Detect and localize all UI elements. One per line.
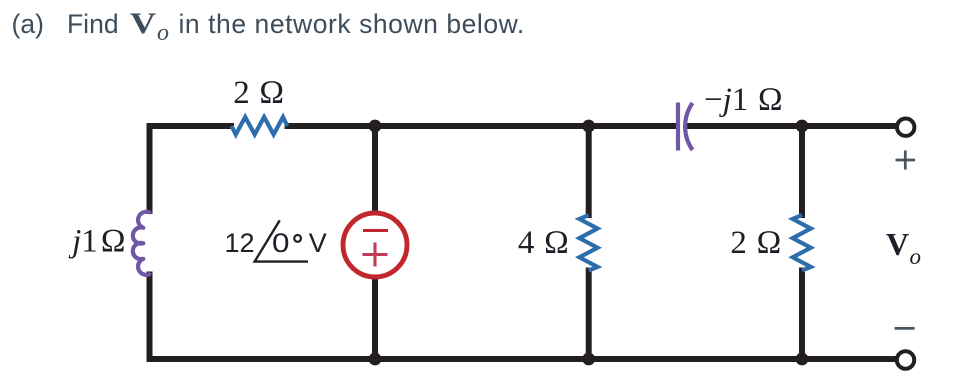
title text: [12, 9, 525, 39]
svg-text:−j1 Ω: −j1 Ω: [704, 82, 783, 118]
node bottom 2-ohm: [796, 353, 809, 366]
svg-text:in the network shown below.: in the network shown below.: [179, 9, 525, 39]
svg-text:o: o: [910, 244, 922, 269]
wire bottom: [150, 356, 896, 362]
wire 2-ohm branch lower: [799, 271, 805, 360]
svg-text:Find: Find: [67, 9, 119, 39]
node bottom source: [369, 353, 382, 366]
terminal bottom right: [897, 351, 914, 368]
wire 4-ohm branch upper: [586, 126, 592, 215]
svg-text:4 Ω: 4 Ω: [518, 225, 569, 261]
wire top middle: [288, 123, 677, 129]
capacitor C1 curved plate: [685, 103, 692, 150]
voltage source V1 degree mark: [294, 235, 301, 242]
svg-text:(a): (a): [12, 9, 44, 39]
svg-text:o: o: [157, 20, 169, 46]
wire top-left horizontal: [150, 123, 232, 129]
resistor R3 2-ohm vertical zigzag: [793, 215, 811, 271]
svg-text:V: V: [886, 226, 909, 262]
wire 4-ohm branch lower: [586, 271, 592, 360]
voltage source V1 angle symbol: [255, 220, 308, 261]
voltage source V1 minus sign: [363, 229, 388, 232]
wire left vertical upper: [147, 126, 153, 211]
node bottom 4-ohm: [582, 353, 595, 366]
resistor R1 2-ohm horizontal zigzag: [232, 117, 288, 135]
svg-text:2 Ω: 2 Ω: [233, 75, 284, 111]
resistor R2 4-ohm vertical zigzag: [579, 215, 597, 271]
svg-text:V: V: [309, 228, 327, 258]
capacitor C1 left plate: [676, 103, 680, 151]
inductor L1 coil: [133, 212, 150, 275]
svg-text:V: V: [130, 7, 156, 40]
voltage source V1 plus sign: [363, 243, 388, 267]
node top 2-ohm: [796, 120, 809, 133]
voltage source V1 circle: [343, 213, 407, 277]
node top 4-ohm: [582, 120, 595, 133]
wire source branch lower: [372, 278, 378, 359]
terminal top right: [897, 119, 914, 136]
svg-text:0: 0: [272, 228, 290, 258]
svg-text:j1 Ω: j1 Ω: [68, 224, 126, 260]
node top source: [369, 120, 382, 133]
voltage source V1 value label 12 angle 0 V: [224, 228, 326, 258]
node junction dots: [369, 120, 809, 366]
wire top right: [687, 123, 895, 129]
minus polarity sign: [895, 327, 915, 330]
svg-text:12: 12: [224, 228, 254, 258]
wire 2-ohm branch upper: [799, 126, 805, 215]
svg-text:2 Ω: 2 Ω: [730, 225, 781, 261]
plus polarity sign: [896, 151, 916, 170]
wire source branch upper: [372, 126, 378, 212]
wire left vertical lower: [147, 275, 153, 360]
